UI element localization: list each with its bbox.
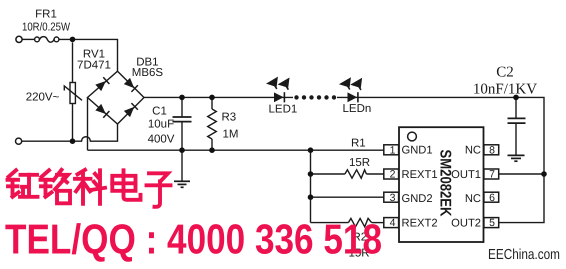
- svg-text:LED1: LED1: [269, 104, 298, 116]
- svg-text:NC: NC: [465, 144, 481, 156]
- svg-text:4: 4: [390, 217, 396, 229]
- svg-text:OUT2: OUT2: [451, 217, 481, 229]
- ground below C1: [174, 181, 190, 187]
- char 子: [147, 173, 171, 207]
- capacitor C2: [508, 118, 526, 123]
- svg-text:R3: R3: [222, 112, 237, 124]
- node varistor bottom: [70, 138, 76, 144]
- pin 4 box: [384, 218, 399, 228]
- terminal input L: [16, 36, 22, 42]
- node OUT1 rail: [541, 171, 547, 177]
- wire R1 to pin2: [366, 173, 383, 175]
- wire C2 lower stub to ground: [515, 123, 517, 155]
- pin 3 box: [384, 192, 399, 202]
- terminal input N: [16, 138, 22, 144]
- IC pin labels: [402, 144, 482, 229]
- svg-text:8: 8: [489, 144, 495, 156]
- svg-text:3: 3: [390, 192, 396, 204]
- wire varistor branch upper: [72, 43, 74, 83]
- diode bridge top-right: [124, 78, 138, 92]
- diode bridge top-left: [95, 77, 109, 91]
- wire left bus: [310, 150, 312, 222]
- node bus pin3: [308, 194, 314, 200]
- red company name 钲铭科电子 drawn strokes: [8, 170, 171, 207]
- wire C2 upper stub: [515, 97, 517, 118]
- pin 5 box: [484, 218, 499, 228]
- node R3 bottom: [209, 147, 215, 153]
- wire C1 upper stub: [181, 97, 183, 116]
- wire bus to R2: [311, 222, 349, 224]
- op IC U1 SM2082EK body: [399, 127, 484, 242]
- diode bridge bottom-right: [124, 103, 138, 117]
- pin 7 box: [484, 169, 499, 179]
- svg-text:LEDn: LEDn: [343, 103, 372, 115]
- svg-text:2: 2: [390, 169, 396, 181]
- wire fuse to bridge top: [59, 39, 118, 71]
- char 钲: [8, 170, 38, 197]
- svg-text:5: 5: [489, 217, 495, 229]
- wire bottom AC with hop over bridge negative drop: [22, 124, 118, 141]
- svg-text:C1: C1: [152, 106, 167, 118]
- svg-text:REXT1: REXT1: [402, 169, 438, 181]
- wire R3 lower stub: [211, 139, 213, 150]
- svg-text:400V: 400V: [148, 134, 175, 146]
- wire top rail bridge to LED gap: [144, 96, 293, 98]
- pin 2 box: [384, 169, 399, 179]
- node bus top: [308, 147, 314, 153]
- svg-text:FR1: FR1: [35, 9, 57, 21]
- LEDn arrows: [340, 78, 361, 90]
- svg-text:REXT2: REXT2: [402, 217, 438, 229]
- pin 8 box: [484, 145, 499, 155]
- char 铭: [41, 170, 71, 204]
- svg-text:10nF/1KV: 10nF/1KV: [473, 82, 537, 98]
- varistor RV1: [64, 83, 82, 104]
- svg-text:15R: 15R: [349, 157, 370, 169]
- resistor R1: [345, 170, 367, 178]
- capacitor C1: [173, 117, 192, 122]
- svg-text:OUT1: OUT1: [451, 169, 481, 181]
- LED1 arrows: [267, 78, 289, 90]
- wire bus to pin3 GND2: [311, 196, 384, 198]
- wire R3 upper stub: [211, 97, 213, 109]
- node C1 top: [179, 95, 185, 101]
- pin 1 box: [384, 145, 399, 155]
- svg-text:SM2082EK: SM2082EK: [437, 150, 454, 218]
- node bus pin2: [308, 171, 314, 177]
- pin 6 box: [484, 192, 499, 202]
- svg-text:1M: 1M: [223, 129, 239, 141]
- svg-text:10R/0.25W: 10R/0.25W: [22, 22, 70, 34]
- resistor R3: [208, 109, 217, 139]
- svg-text:220V~: 220V~: [26, 92, 60, 104]
- char 电: [112, 170, 140, 200]
- pin1 marker circle: [408, 132, 417, 141]
- svg-text:7D471: 7D471: [77, 60, 111, 72]
- node C1 bottom / ground: [179, 147, 185, 153]
- wire R2 to pin4: [372, 222, 384, 224]
- ground below C2: [508, 155, 525, 161]
- svg-text:NC: NC: [465, 193, 481, 205]
- wire bus to R1: [311, 173, 345, 175]
- pin numbers: [390, 144, 495, 229]
- diode bridge bottom-left: [95, 104, 109, 118]
- node R3 top: [209, 95, 215, 101]
- wire bottom rail to pin1 GND1: [88, 149, 384, 151]
- svg-text:EEChina.com: EEChina.com: [488, 247, 560, 263]
- bridge rectifier DB1 diamond: [88, 71, 145, 124]
- svg-text:TEL/QQ : 4000 336 518: TEL/QQ : 4000 336 518: [5, 216, 382, 263]
- wire top rail LEDn to right corner: [337, 97, 544, 222]
- svg-text:R1: R1: [351, 138, 366, 150]
- svg-text:MB6S: MB6S: [132, 67, 164, 79]
- svg-text:10uF: 10uF: [148, 119, 174, 131]
- wire varistor branch lower: [72, 104, 74, 142]
- fuse FR1: [35, 37, 59, 43]
- svg-text:GND1: GND1: [402, 145, 433, 157]
- resistor R2: [348, 218, 371, 226]
- svg-text:6: 6: [489, 192, 495, 204]
- wire bridge negative drop: [87, 98, 89, 151]
- svg-text:7: 7: [489, 169, 495, 181]
- LED string dots: [294, 95, 336, 99]
- char 科: [75, 170, 105, 204]
- labels C2 serif: [473, 65, 537, 98]
- wire top AC from terminal to fuse: [22, 38, 34, 40]
- LED1: [274, 92, 284, 102]
- wire OUT1 pin7 to right rail: [499, 173, 544, 175]
- node C2 top: [513, 95, 519, 101]
- wire ground stub below C1 rail: [181, 150, 183, 181]
- wire C1 lower stub: [181, 122, 183, 151]
- svg-text:1: 1: [390, 144, 396, 156]
- svg-text:C2: C2: [496, 65, 514, 81]
- LEDn: [348, 92, 358, 102]
- svg-text:GND2: GND2: [402, 193, 433, 205]
- node fuse output: [70, 37, 76, 43]
